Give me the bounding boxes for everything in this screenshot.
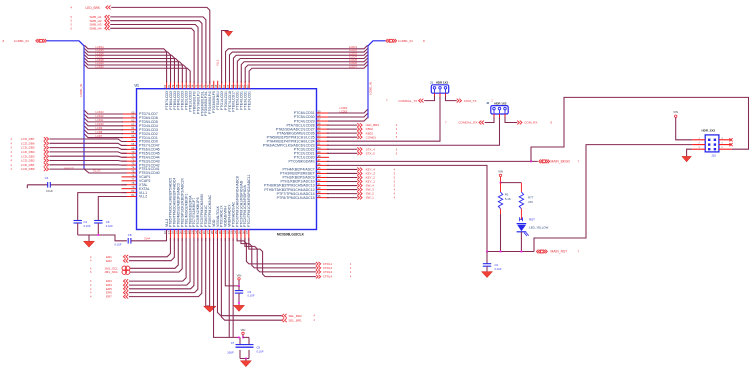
- capacitor C7 10UF: [239, 337, 241, 344]
- wire MAIN_BKGD from right pin13: [327, 160, 538, 162]
- wire J10 left bottom pin to ground: [687, 149, 693, 156]
- svg-text:COM_RX: COM_RX: [524, 121, 537, 125]
- capacitor C4 0.1UF: [74, 220, 82, 222]
- svg-text:0.1UF: 0.1UF: [495, 267, 502, 271]
- ground at J10: [682, 156, 692, 162]
- svg-text:8: 8: [3, 39, 5, 43]
- svg-text:C8: C8: [128, 233, 132, 237]
- ground left rail: [84, 241, 95, 247]
- svg-text:MAIN_RST: MAIN_RST: [551, 250, 568, 254]
- svg-text:0.1UF: 0.1UF: [84, 224, 91, 228]
- ground bottom main: [204, 306, 217, 312]
- svg-text:COM01: COM01: [366, 135, 377, 139]
- wire right pin8 to header J2 pin2: [327, 96, 440, 141]
- wire rail to bottom pin1: [131, 240, 167, 242]
- svg-text:U1: U1: [135, 84, 139, 88]
- U1 bottom pin stubs: [166, 230, 168, 242]
- wire VIN down to R1/R77 node: [500, 177, 502, 183]
- svg-text:PTC0/BKGD/MS: PTC0/BKGD/MS: [289, 160, 316, 164]
- svg-text:HDR_2X3: HDR_2X3: [702, 129, 716, 133]
- svg-text:CTRL3: CTRL3: [323, 270, 333, 274]
- svg-text:HDR 1X3: HDR 1X3: [436, 81, 449, 85]
- svg-text:LED_YELLOW: LED_YELLOW: [529, 225, 549, 229]
- capacitor C1 0.1UF: [47, 182, 49, 188]
- port COMDAL_RX: [479, 121, 484, 125]
- svg-text:60: 60: [246, 84, 250, 88]
- port COM_TX: [457, 99, 462, 103]
- svg-text:LED_BRK: LED_BRK: [86, 6, 101, 10]
- wire VIN to J10 left top pin: [676, 117, 693, 139]
- svg-text:0.1UF: 0.1UF: [257, 349, 264, 353]
- svg-text:8: 8: [423, 39, 425, 43]
- svg-text:VIN: VIN: [237, 273, 242, 277]
- svg-text:C6: C6: [106, 220, 110, 224]
- svg-text:C5: C5: [257, 346, 261, 350]
- wire caps bottom rail: [240, 358, 249, 360]
- svg-text:PTF6/TPM2CLK/ADC15: PTF6/TPM2CLK/ADC15: [277, 196, 315, 200]
- ground below C7 C5: [240, 361, 251, 367]
- svg-text:C1: C1: [45, 176, 49, 180]
- svg-text:5.1K: 5.1K: [505, 197, 511, 201]
- port MAIN_RST: [540, 250, 543, 253]
- svg-text:0.1UF: 0.1UF: [248, 294, 255, 298]
- resistor R1 5.1K: [500, 183, 502, 193]
- ground stub on rail: [88, 235, 90, 241]
- net VLL3 top power arrow: [222, 31, 229, 84]
- wire ground rail under left caps: [78, 235, 127, 241]
- wire J3 pin3 to COM_RX: [505, 117, 517, 123]
- junction reset rail at R1: [500, 251, 502, 253]
- svg-text:MC9S08LG32CLK: MC9S08LG32CLK: [277, 232, 305, 236]
- svg-text:C7: C7: [231, 341, 235, 345]
- svg-text:RST: RST: [529, 218, 535, 222]
- svg-text:LCD20: LCD20: [96, 64, 105, 68]
- svg-text:VIN: VIN: [498, 170, 503, 174]
- svg-text:LCD9: LCD9: [96, 126, 103, 130]
- wire VIN node to R77: [501, 182, 522, 184]
- ports ER3-ER7 to bottom pins 6-10: [129, 238, 186, 281]
- svg-text:C2: C2: [495, 263, 499, 267]
- wires right bus rips to top pins: [226, 45, 368, 82]
- wire right pin9 to header J3 pin2: [327, 117, 500, 146]
- capacitor C8 0.1UF in series on rail: [127, 238, 129, 244]
- junction ground rail at C6: [97, 234, 99, 236]
- wire left bus end rip to pin 16: [84, 169, 127, 173]
- svg-text:JM1_SDA: JM1_SDA: [104, 270, 118, 274]
- U1 top pin stubs: [166, 81, 168, 89]
- ground below C2: [482, 272, 493, 278]
- svg-text:SEL_BR2: SEL_BR2: [289, 314, 303, 318]
- wire J2 pin1 to COMDAL_TX: [424, 96, 434, 101]
- ports STX_4 STX_5 on right pins 10-11: [327, 148, 358, 150]
- wire VDD pin13 down to caps C7 C5: [214, 238, 239, 337]
- wire right bus vertical: [367, 46, 369, 118]
- test point RST: [520, 217, 523, 221]
- svg-text:C4: C4: [84, 220, 88, 224]
- ports ER1 ER2 to bottom pins 2-3: [129, 238, 171, 257]
- svg-text:LCD13: LCD13: [96, 110, 105, 114]
- svg-text:SEL_BR1: SEL_BR1: [289, 318, 303, 322]
- svg-text:LCD05: LCD05: [340, 111, 348, 114]
- svg-text:0.1UF: 0.1UF: [114, 242, 121, 246]
- svg-text:LCD10: LCD10: [96, 122, 105, 126]
- op-amp U1 microcontroller MC9S08LG32CLK body: [137, 89, 317, 230]
- wire J3 pin1 to COMDAL_RX: [485, 117, 494, 123]
- wire J2 pin3 to COM_TX: [446, 96, 457, 101]
- svg-text:C3: C3: [248, 290, 252, 294]
- wire left pin21 to capacitor C4: [78, 193, 127, 221]
- svg-text:LCDB1_IN: LCDB1_IN: [369, 82, 373, 95]
- svg-text:COMDAL_RX: COMDAL_RX: [458, 121, 477, 125]
- port COM_RX: [517, 121, 522, 125]
- wire left pin22 to capacitor C6: [98, 197, 127, 221]
- ports JM1_SCL JM1_SDA to bottom pins 4-5: [130, 238, 178, 268]
- capacitor C5 0.1UF: [248, 337, 250, 344]
- capacitor C6 0.1UF: [94, 220, 102, 222]
- svg-text:470: 470: [528, 200, 533, 204]
- junction MAIN_BKGD: [530, 160, 532, 162]
- junction reset rail at LED: [521, 251, 523, 253]
- ports SEL_BR2 SEL_BR1 from bottom pins 14-15: [217, 238, 281, 316]
- junction cap rail left: [238, 337, 240, 339]
- svg-text:SW_1: SW_1: [366, 196, 375, 200]
- svg-text:0.1UF: 0.1UF: [106, 224, 113, 228]
- svg-text:VLL2: VLL2: [139, 195, 147, 199]
- connector J3 HDR 1X3: [491, 106, 508, 114]
- svg-text:HDR 1X3: HDR 1X3: [494, 101, 507, 105]
- wires right bus rips to right pins 1-3: [328, 109, 368, 113]
- wire VIN pin16 branch: [225, 238, 239, 286]
- svg-text:S1_K2: S1_K2: [93, 170, 101, 173]
- wire RESET from right pin14 down to reset rail: [327, 165, 487, 251]
- svg-text:ER2: ER2: [106, 259, 112, 263]
- svg-text:R77: R77: [528, 195, 534, 199]
- wire left pin19 with series capacitor C1: [50, 184, 126, 186]
- port COMDAL_TX: [419, 99, 424, 103]
- svg-text:LCD27: LCD27: [349, 64, 358, 68]
- svg-text:LCD12: LCD12: [96, 114, 105, 118]
- svg-text:10UF: 10UF: [227, 350, 234, 354]
- resistor R77 470: [520, 183, 522, 193]
- wire BKGD to header J10 right middle pin: [531, 97, 749, 161]
- ports right pins group C: [327, 168, 358, 170]
- svg-text:ER7: ER7: [106, 295, 112, 299]
- wire reset rail MAIN_RST: [487, 251, 534, 253]
- wires left bus rips to top pins LCD14-LCD20: [84, 45, 166, 82]
- wire LED cathode to reset rail: [520, 232, 522, 252]
- U1 left pin stubs: [122, 113, 137, 115]
- svg-text:STX_5: STX_5: [366, 151, 376, 155]
- wire left bus entry: [47, 41, 84, 46]
- ports LED_BR3 KB02 KB03 COM01 on right pins 4-7: [327, 124, 358, 126]
- svg-text:VIN: VIN: [673, 110, 678, 114]
- junction VIN bottom: [238, 285, 240, 287]
- svg-text:COM_TX: COM_TX: [464, 99, 477, 103]
- svg-text:VLL3: VLL3: [216, 59, 220, 66]
- svg-text:CTRL4: CTRL4: [323, 275, 333, 279]
- svg-text:LCD8: LCD8: [96, 130, 103, 134]
- svg-text:3144: 3144: [144, 237, 150, 241]
- svg-text:COMDAL_TX: COMDAL_TX: [398, 99, 417, 103]
- connector J2 HDR 1X3: [431, 85, 448, 93]
- wire right bus entry: [368, 41, 385, 46]
- node LCDB1_IN right bus port: [390, 39, 393, 42]
- port MAIN_BKGD: [543, 160, 546, 163]
- svg-text:LCD7: LCD7: [96, 134, 103, 138]
- junction cap rail right: [242, 337, 244, 339]
- svg-text:LCD_DB0: LCD_DB0: [21, 167, 35, 171]
- svg-text:LCDB1_IN: LCDB1_IN: [398, 39, 413, 43]
- connector J10 HDR_2X3: [705, 135, 719, 152]
- capacitor C2 0.1UF below reset rail: [486, 251, 488, 253]
- svg-text:37: 37: [245, 231, 249, 235]
- wires CTRL1-4 from bottom pins 19-22: [237, 238, 316, 264]
- no-connect x marks on J10 right pins 4 5: [729, 138, 732, 141]
- svg-text:LCD11: LCD11: [96, 118, 104, 122]
- wire MAIN_RST to J10 left middle pin: [534, 145, 692, 252]
- wire left bus vertical: [83, 46, 85, 169]
- svg-text:0.1UF: 0.1UF: [46, 189, 53, 193]
- svg-text:J10: J10: [711, 154, 716, 158]
- U1 right pin stubs: [317, 112, 330, 114]
- capacitor C3 0.1UF at VIN: [238, 286, 240, 291]
- svg-text:PTE2/LCD1: PTE2/LCD1: [247, 91, 251, 110]
- svg-text:LCDB1_IN: LCDB1_IN: [14, 39, 29, 43]
- wires pins 17-18 to cap rail: [228, 238, 230, 337]
- svg-text:LCDB1_IN: LCDB1_IN: [79, 84, 83, 97]
- wires ground pins 11-12: [205, 238, 207, 306]
- wires left bus rips to left pins LCD13-LCD7: [84, 110, 123, 114]
- svg-text:MAIN_BKGD: MAIN_BKGD: [551, 160, 571, 164]
- LED D1 LED_YELLOW: [517, 223, 527, 225]
- svg-text:PTC1/TPM1CH3/RGPIO2/ADC11: PTC1/TPM1CH3/RGPIO2/ADC11: [247, 174, 251, 227]
- svg-text:VIN: VIN: [241, 328, 246, 332]
- svg-text:SMB_H4: SMB_H4: [90, 26, 102, 30]
- junction VIN node: [500, 182, 502, 184]
- wire LED_BRK to top pin 12: [111, 7, 210, 83]
- ground below C3: [234, 305, 245, 311]
